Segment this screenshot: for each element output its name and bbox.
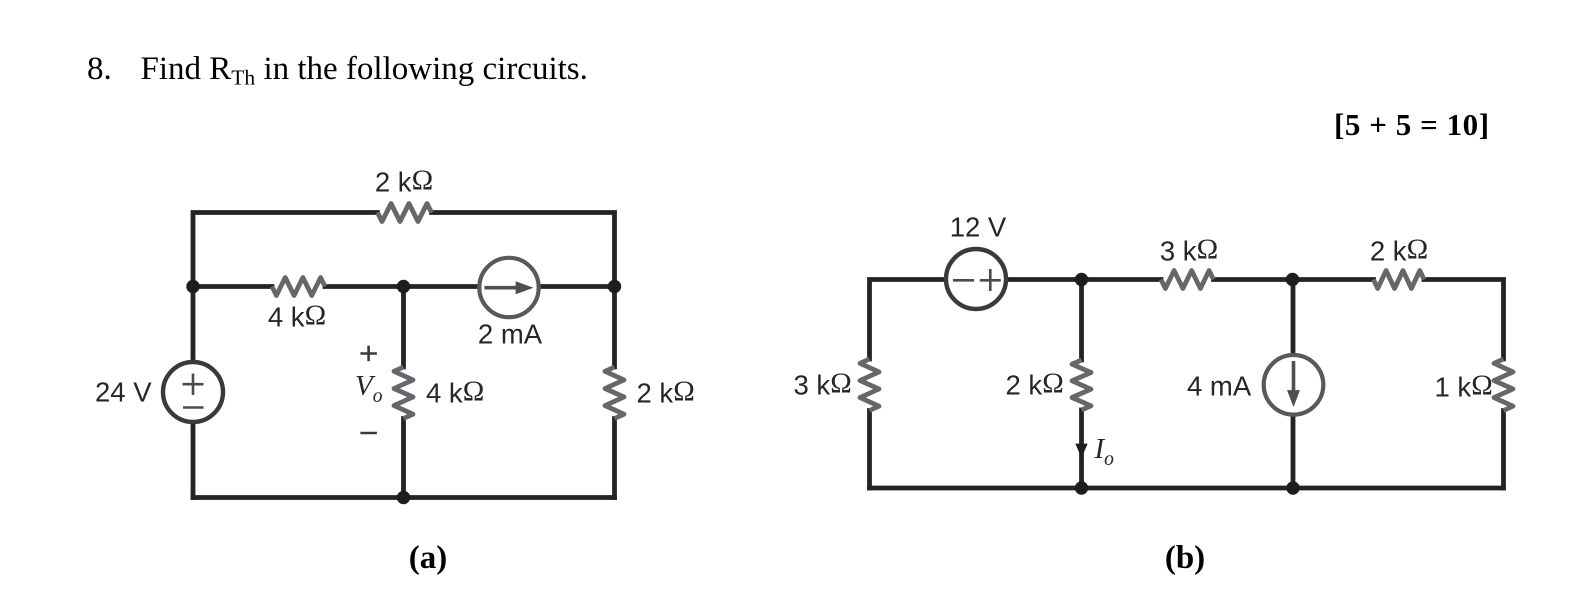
wire: (b) top rail 12V to 3k resistor [1006,277,1161,282]
svg-text:8.: 8. [87,51,112,87]
svg-text:1 kΩ: 1 kΩ [1435,370,1493,403]
wire: (b) first middle vertical above 2k resistor [1079,280,1084,361]
svg-text:Io: Io [1094,433,1115,470]
svg-text:(a): (a) [409,540,447,576]
resistor 2k vertical right (a) [605,367,624,419]
wire: (a) right rail below 2k resistor [612,419,617,498]
wire: (a) left rail below source [191,424,196,498]
resistor 4k vertical Vo (a) [394,367,413,419]
resistor 3k left vertical (b) [860,359,879,411]
wire: (b) first middle vertical below 2k resistor (Io branch) [1079,410,1084,488]
wire: (a) middle wire right of current source [541,284,615,289]
wire: (a) middle wire between 4k and current source [325,284,477,289]
svg-text:12 V: 12 V [950,212,1007,243]
svg-text:[5 + 5 = 10]: [5 + 5 = 10] [1334,107,1490,142]
voltage source 24V circle (a) [163,362,223,422]
wire: (b) top rail right of 2k resistor [1424,280,1504,360]
svg-text:(b): (b) [1165,540,1205,576]
svg-text:2 kΩ: 2 kΩ [1370,234,1428,267]
wire: (b) left rail below 3k resistor [867,411,872,489]
svg-text:Find RTh in the following circ: Find RTh in the following circuits. [141,51,588,90]
voltage source 12V minus sign [953,279,974,282]
wire: (b) top rail 3k to 2k resistor [1214,277,1374,282]
svg-text:4 mA: 4 mA [1187,371,1252,402]
circuit (b) [870,280,1504,489]
svg-text:24 V: 24 V [95,377,152,408]
wire: (a) top-left vertical segment [193,213,378,361]
wire: (b) second middle vertical below 4mA source [1291,415,1296,489]
circuit (a) [193,213,615,498]
svg-text:2 kΩ: 2 kΩ [637,376,695,409]
wire: (b) right rail below 1k resistor [1501,411,1506,489]
svg-text:3 kΩ: 3 kΩ [794,368,852,401]
voltage source 24V plus sign [183,374,204,396]
wire: (a) center vertical below Vo resistor [401,419,406,498]
resistor 3k top (b) [1161,271,1214,289]
voltage source 12V plus sign [980,269,1001,291]
resistor R 2k top (a) [378,204,432,222]
current source 4mA arrow [1287,361,1300,407]
wire: (b) bottom rail [870,486,1504,491]
wire: (a) middle wire left of 4k resistor [193,284,272,289]
current source 2mA circle (a) [479,258,538,317]
wire: (b) top rail left of 12V source [870,280,947,360]
resistor R 4k middle horizontal (a) [272,278,325,296]
resistor 2k top right (b) [1374,271,1425,289]
svg-text:3 kΩ: 3 kΩ [1160,234,1218,267]
node dots (a) [186,280,621,504]
node dots (b) [1075,273,1300,495]
voltage source 24V minus sign [183,406,204,409]
current source 2mA arrow [485,281,534,294]
svg-text:2 kΩ: 2 kΩ [1006,368,1064,401]
resistor 2k middle vertical (b) [1072,360,1091,410]
svg-text:2 kΩ: 2 kΩ [375,165,433,198]
svg-text:4 kΩ: 4 kΩ [268,300,326,333]
voltage source 12V circle (b) [946,249,1006,309]
resistor 1k right vertical (b) [1494,359,1513,411]
wire: (a) bottom rail [193,495,615,500]
label Vo minus [360,432,377,435]
svg-text:Vo: Vo [355,370,383,407]
wire: (b) second middle vertical above 4mA source [1291,280,1296,356]
Io arrow head on wire (b) [1075,444,1087,458]
current source 4mA circle (b) [1264,355,1324,415]
svg-text:4 kΩ: 4 kΩ [426,376,484,409]
svg-text:2 mA: 2 mA [478,319,543,350]
label Vo plus [360,346,377,362]
wire: (a) top right segment to right rail [432,213,615,368]
wire: (a) center vertical above Vo resistor [401,287,406,368]
